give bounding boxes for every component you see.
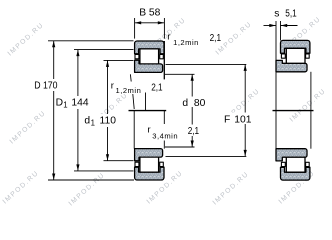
d dimension line: [191, 74, 193, 96]
F top extension (raceway): [166, 63, 247, 65]
outer ring bottom bar: [135, 167, 164, 180]
svg-text:IMPOD.RU: IMPOD.RU: [7, 22, 46, 58]
roller bottom: [140, 157, 159, 172]
svg-text:1,2min: 1,2min: [116, 86, 142, 95]
svg-text:D 170: D 170: [34, 80, 57, 92]
svg-text:IMPOD.RU: IMPOD.RU: [68, 172, 107, 208]
svg-text:5,1: 5,1: [285, 8, 296, 19]
svg-text:3,4min: 3,4min: [152, 131, 178, 140]
watermark tiles: [2, 16, 328, 208]
inner ring bottom (right view): [276, 149, 307, 161]
roller top: [140, 49, 159, 64]
D dimension line: [53, 41, 55, 79]
svg-text:IMPOD.RU: IMPOD.RU: [9, 110, 48, 146]
svg-text:2,1: 2,1: [210, 32, 221, 43]
inner ring bottom: [135, 149, 163, 161]
right view axis line: [273, 110, 314, 112]
main view right face extension (top): [163, 41, 165, 79]
svg-text:IMPOD.RU: IMPOD.RU: [2, 170, 41, 206]
main view left silhouette below axis: [133, 111, 135, 149]
svg-text:IMPOD.RU: IMPOD.RU: [212, 171, 251, 207]
svg-text:2,1: 2,1: [151, 82, 162, 93]
D1 arrows: [76, 50, 79, 56]
F bottom extension: [166, 155, 247, 157]
inner ring top (right view, shifted left by s): [276, 60, 307, 71]
svg-text:r: r: [111, 81, 115, 92]
main view axis line: [129, 110, 167, 112]
svg-text:1: 1: [63, 101, 67, 110]
leader from r12 mid label to axis: [145, 93, 147, 111]
svg-text:80: 80: [194, 98, 206, 109]
outer ring top bar (right view): [281, 40, 310, 53]
d top extension (bore): [165, 73, 195, 75]
svg-text:2,1: 2,1: [188, 125, 199, 136]
outer ring top bar: [135, 41, 164, 54]
inner ring top (flange left, bar with rounded right end): [135, 60, 163, 72]
D1 top extension: [74, 49, 134, 51]
F arrows: [244, 65, 247, 71]
right view inner ring left face / s extension line: [275, 21, 277, 60]
D bottom extension: [48, 179, 134, 181]
B arrows: [135, 21, 141, 24]
leader diag from bore corner to axis (broken by text): [129, 74, 132, 81]
svg-text:IMPOD.RU: IMPOD.RU: [289, 88, 328, 124]
cage rects bottom: [135, 162, 139, 166]
B extension lines: [134, 18, 136, 39]
outer ring bottom bar (right view): [281, 167, 310, 180]
s arrows: [269, 24, 275, 27]
main view right silhouette below axis (broken by r34 text): [163, 111, 165, 124]
D arrows: [52, 41, 55, 47]
d1 top extension: [104, 59, 134, 61]
cage rects bottom (right view): [281, 162, 285, 166]
cage rects top: [135, 55, 139, 59]
svg-text:1,2min: 1,2min: [173, 38, 199, 47]
d bottom extension: [165, 146, 195, 148]
F dimension line: [244, 64, 246, 112]
D top extension: [48, 40, 134, 42]
D1 dimension line: [77, 50, 79, 96]
svg-text:1: 1: [91, 118, 95, 127]
svg-text:B 58: B 58: [139, 8, 160, 19]
d arrows: [191, 74, 194, 80]
svg-text:F: F: [224, 115, 230, 126]
D1 bottom extension: [74, 170, 134, 172]
cage rects top (right view): [281, 54, 285, 58]
s dimension leader left: [264, 25, 276, 27]
right view right silhouette: [310, 72, 312, 149]
roller bottom (right view): [286, 157, 305, 172]
svg-text:101: 101: [234, 115, 251, 126]
svg-text:d: d: [182, 98, 188, 109]
B dimension line: [135, 22, 165, 24]
svg-text:110: 110: [100, 115, 117, 126]
roller top (right view): [286, 48, 305, 63]
d1 bottom extension: [104, 160, 134, 162]
d1 dimension line: [107, 60, 109, 114]
svg-text:144: 144: [71, 98, 88, 109]
d1 arrows: [106, 61, 109, 67]
svg-text:s: s: [274, 9, 279, 20]
svg-text:D: D: [56, 98, 63, 109]
s dimension leader right: [281, 25, 298, 27]
right view outer left face extension for s: [280, 21, 282, 40]
svg-text:d: d: [84, 115, 90, 126]
